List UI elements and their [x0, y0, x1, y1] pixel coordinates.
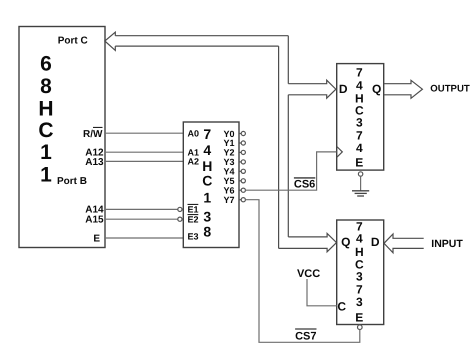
svg-text:R/W: R/W: [83, 129, 103, 140]
svg-text:4: 4: [356, 78, 363, 92]
wire A14 to E1: [105, 208, 178, 210]
inverting bubble on E of 74HC374: [358, 172, 362, 176]
svg-text:Q: Q: [341, 235, 350, 249]
svg-text:C: C: [38, 119, 53, 142]
wire CS7 from Y7 to E of 74HC373: [245, 200, 359, 343]
output stub Y3: [239, 160, 245, 164]
svg-text:1: 1: [40, 164, 52, 187]
svg-text:OUTPUT: OUTPUT: [430, 84, 470, 95]
bus branch with arrowhead into Q of 74HC373: [279, 233, 337, 251]
svg-text:E3: E3: [188, 232, 199, 242]
inverting bubble E1: [178, 207, 182, 211]
svg-text:INPUT: INPUT: [431, 238, 463, 250]
svg-text:7: 7: [203, 126, 211, 142]
svg-text:Q: Q: [372, 82, 381, 96]
svg-text:CS7: CS7: [295, 331, 316, 343]
OUTPUT bus arrow from Q: [384, 80, 423, 98]
svg-text:E2: E2: [188, 214, 199, 224]
wire E to E3: [105, 237, 183, 239]
svg-text:C: C: [337, 299, 346, 313]
pin R/W (W overlined): [83, 127, 103, 140]
output stub Y5: [239, 179, 245, 183]
svg-text:E: E: [93, 233, 100, 244]
output stub Y2: [239, 150, 245, 154]
bus branch with arrowhead into D of 74HC374: [288, 80, 336, 98]
svg-text:A13: A13: [85, 157, 104, 168]
svg-text:3: 3: [356, 295, 363, 309]
svg-text:Y4: Y4: [224, 167, 235, 177]
ground symbol: [352, 191, 369, 196]
svg-text:4: 4: [356, 141, 363, 155]
clock wedge inside 74HC374: [337, 147, 343, 158]
svg-text:Y6: Y6: [224, 185, 235, 195]
microcontroller 68HC11: [19, 27, 105, 248]
svg-text:A15: A15: [85, 214, 104, 225]
svg-text:D: D: [339, 82, 348, 96]
wire A15 to E2: [105, 218, 178, 220]
svg-text:4: 4: [203, 142, 211, 158]
svg-text:8: 8: [40, 75, 52, 98]
output stub Y1: [239, 141, 245, 145]
wire CS6 from Y6 to clock of 74HC374: [245, 152, 336, 190]
wire VCC to C of 74HC373: [307, 279, 337, 306]
svg-text:Y2: Y2: [224, 148, 235, 158]
decoder 74HC138: [183, 122, 239, 248]
svg-text:1: 1: [40, 141, 52, 164]
svg-text:A0: A0: [188, 128, 200, 138]
svg-text:Port C: Port C: [58, 36, 88, 47]
output stub Y7: [239, 198, 245, 202]
INPUT bus arrow into D: [384, 234, 424, 253]
svg-text:H: H: [38, 97, 53, 120]
svg-text:VCC: VCC: [297, 268, 320, 280]
net label CS7 (overlined): [295, 329, 316, 343]
svg-text:C: C: [202, 172, 212, 188]
svg-text:E: E: [355, 311, 363, 325]
output stub Y4: [239, 169, 245, 173]
bus arrowhead into Port C: [105, 32, 116, 50]
svg-text:4: 4: [356, 232, 363, 246]
svg-text:3: 3: [203, 208, 211, 224]
svg-text:1: 1: [203, 190, 211, 206]
bus wire pair from Port C (horizontal): [115, 36, 288, 46]
pin E1 (overlined): [188, 204, 199, 214]
svg-text:E1: E1: [188, 204, 199, 214]
latch 74HC374 (output port): [337, 64, 384, 171]
svg-text:Port B: Port B: [57, 176, 87, 187]
output stub Y0: [239, 131, 245, 135]
wire A12 to A1: [105, 151, 183, 153]
svg-text:A2: A2: [188, 157, 200, 167]
latch 74HC373 (input port): [337, 219, 384, 324]
wire A13 to A2: [105, 160, 183, 162]
svg-text:E: E: [355, 156, 363, 170]
inverting bubble E2: [178, 217, 182, 221]
svg-text:8: 8: [203, 224, 211, 240]
pin E2 (overlined): [188, 214, 199, 224]
wire E to ground: [360, 176, 362, 191]
svg-text:Y7: Y7: [224, 195, 235, 205]
svg-text:D: D: [371, 235, 380, 249]
bus wire pair vertical: [279, 36, 289, 249]
svg-text:CS6: CS6: [294, 178, 315, 190]
output stub Y6: [239, 188, 245, 192]
svg-text:6: 6: [40, 52, 52, 75]
inverting bubble on E of 74HC373: [358, 325, 363, 330]
wire R/W to A0: [105, 132, 183, 134]
net label CS6 (overlined): [294, 178, 315, 191]
